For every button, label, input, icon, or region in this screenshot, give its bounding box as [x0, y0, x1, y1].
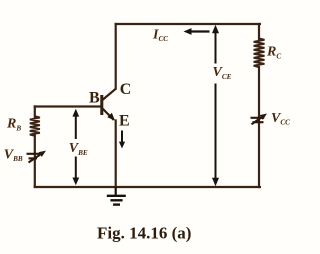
svg-text:E: E: [119, 112, 130, 129]
svg-text:C: C: [120, 81, 132, 98]
svg-text:B: B: [89, 90, 100, 107]
svg-text:Fig. 14.16 (a): Fig. 14.16 (a): [97, 224, 191, 243]
